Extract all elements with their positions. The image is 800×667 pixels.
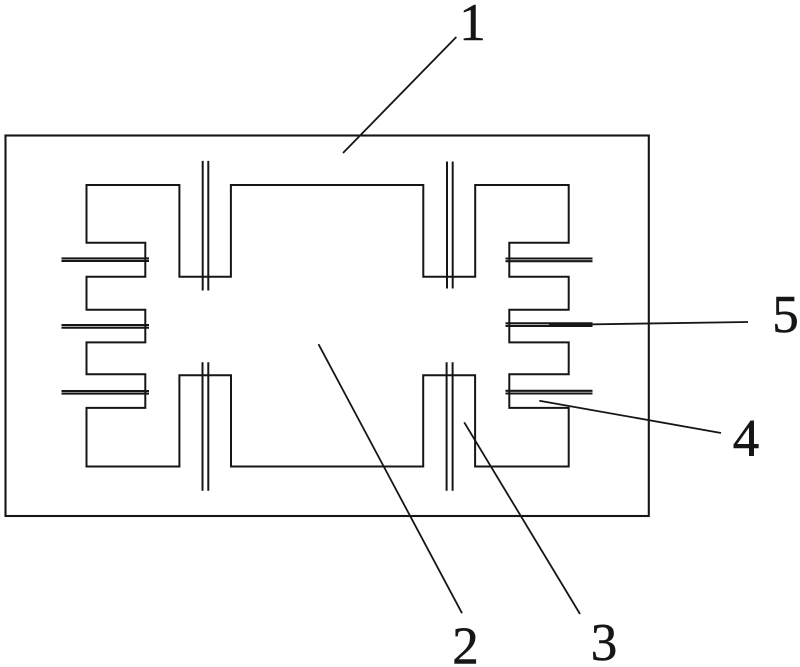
svg-text:1: 1: [459, 0, 486, 52]
svg-text:2: 2: [452, 618, 479, 667]
svg-text:4: 4: [733, 410, 760, 468]
leader line for label 4: [539, 401, 721, 433]
left finger electrode, middle: [62, 325, 150, 328]
leader line for label 5: [549, 322, 748, 325]
slot mark, bottom-right (double vertical lines): [447, 362, 453, 491]
svg-text:5: 5: [772, 286, 799, 344]
leader line for label 3: [464, 422, 580, 614]
leader line for label 2: [319, 344, 463, 613]
leader line for label 1: [343, 37, 456, 153]
slot mark, bottom-left (double vertical lines): [203, 362, 209, 491]
right finger electrode, upper (part 5 type): [506, 259, 593, 262]
right finger electrode, middle: [506, 323, 593, 326]
slot mark, top-right (double vertical lines): [447, 162, 453, 289]
electrode ring with serpentine edges (part 2): [87, 185, 569, 467]
right finger electrode, lower (part 4 type): [506, 391, 593, 394]
left finger electrode, upper (double horizontal lines): [62, 258, 150, 261]
slot mark, top-left (double vertical lines, part 3 type): [203, 161, 209, 291]
substrate plate outline (part 1): [6, 136, 649, 517]
svg-text:3: 3: [591, 614, 618, 667]
left finger electrode, lower: [62, 391, 150, 394]
